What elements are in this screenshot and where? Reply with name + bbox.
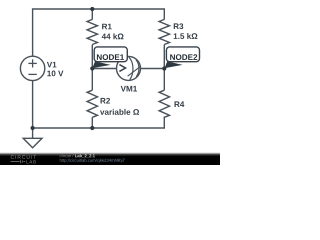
resistor R4 <box>159 90 169 117</box>
node NODE1 flag pointer <box>92 61 110 68</box>
node NODE2 flag pointer <box>165 61 183 68</box>
wire R2 bottom lead <box>91 117 93 128</box>
watermark url text <box>60 159 125 163</box>
wire R1 bottom lead <box>91 45 93 69</box>
label 1.5 kOhm <box>174 33 198 39</box>
watermark title text <box>75 154 95 158</box>
label R2 <box>101 98 110 104</box>
watermark logo CIRCUIT <box>11 155 36 159</box>
ground <box>23 138 42 148</box>
node dot NODE1 junction <box>90 66 94 70</box>
wire left bottom + bottom rail + R4 lead <box>33 81 165 128</box>
voltage source V1 <box>20 56 44 80</box>
watermark user text <box>60 154 74 157</box>
voltmeter VM1 <box>117 56 141 80</box>
label R1 <box>102 24 112 30</box>
wire left+top rail <box>33 9 165 56</box>
node dot top of R1 <box>90 7 94 11</box>
wire middle left <box>92 68 116 70</box>
resistor R2 <box>87 90 97 117</box>
label 44 kOhm <box>102 33 124 39</box>
label 10 V <box>47 71 63 77</box>
watermark logo LAB <box>26 160 35 163</box>
resistor R3 <box>159 19 169 44</box>
node dot ground junction <box>30 126 34 130</box>
node NODE2 label box <box>166 47 199 62</box>
wire R1 branch top lead <box>91 9 93 20</box>
node dot NODE2 junction <box>162 66 166 70</box>
wire R3 bottom lead <box>163 45 165 69</box>
wire ground stub <box>32 128 34 138</box>
wire R2 top lead <box>91 69 93 91</box>
label R3 <box>174 23 184 29</box>
wire middle right <box>141 68 165 70</box>
junction dots <box>30 7 166 130</box>
resistor R1 <box>87 19 97 44</box>
label V1 <box>47 62 57 68</box>
node dot bottom of R2 <box>90 126 94 130</box>
label R4 <box>175 101 185 107</box>
node NODE1 label box <box>94 47 127 62</box>
wire R4 top lead <box>163 69 165 91</box>
label VM1 <box>121 86 137 92</box>
label variable Ohm <box>100 109 139 115</box>
watermark logo capacitor mark <box>11 160 26 163</box>
